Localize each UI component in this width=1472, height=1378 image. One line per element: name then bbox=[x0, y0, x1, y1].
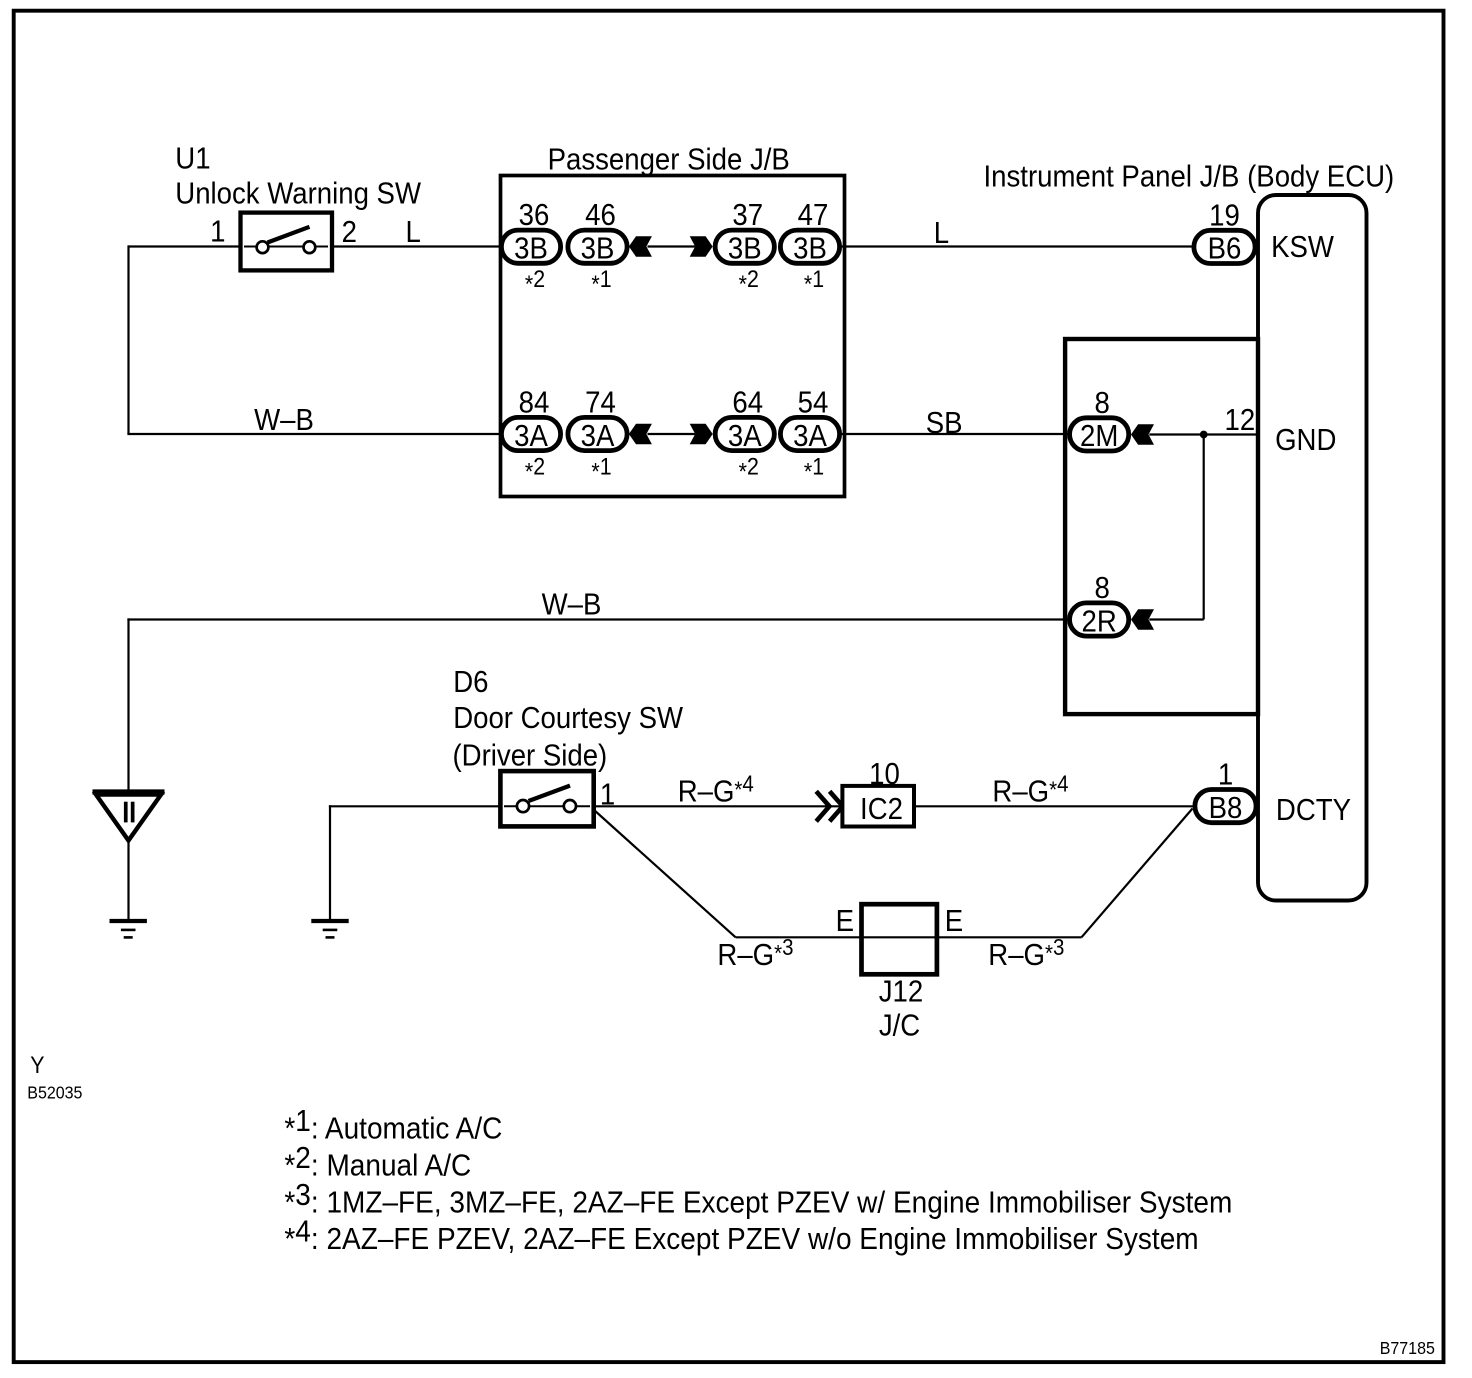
ground symbol 1 bbox=[110, 919, 147, 923]
switch D6 box bbox=[500, 771, 593, 826]
svg-text:R–G*4: R–G*4 bbox=[678, 770, 754, 809]
arrow at 2R bbox=[1131, 609, 1154, 629]
wire R-G from IC2 to B8 bbox=[913, 805, 1196, 807]
svg-text:1: 1 bbox=[1218, 757, 1233, 792]
connector 8 2R bbox=[1070, 603, 1129, 636]
connector 36 3B *2 bbox=[501, 230, 560, 263]
svg-text:3B: 3B bbox=[514, 231, 548, 266]
wire vertical drop from U1 pin 1 corner bbox=[127, 245, 129, 434]
wire from junction to 2R arrow bbox=[1149, 618, 1203, 620]
svg-text:47: 47 bbox=[798, 198, 829, 233]
connector 19 B6 bbox=[1194, 230, 1255, 263]
wire SB from J/B to 2M bbox=[839, 433, 1069, 435]
svg-text:Instrument Panel J/B (Body ECU: Instrument Panel J/B (Body ECU) bbox=[984, 159, 1395, 194]
connector 1 B8 bbox=[1195, 790, 1256, 823]
svg-text:D6: D6 bbox=[453, 665, 488, 700]
svg-text:B52035: B52035 bbox=[27, 1082, 82, 1102]
svg-text:DCTY: DCTY bbox=[1276, 793, 1351, 828]
svg-text:W–B: W–B bbox=[254, 403, 314, 438]
svg-text:74: 74 bbox=[585, 385, 616, 420]
svg-text:Y: Y bbox=[30, 1051, 44, 1078]
svg-text:64: 64 bbox=[732, 385, 763, 420]
svg-text:E: E bbox=[945, 904, 963, 939]
svg-text:*2: *2 bbox=[525, 452, 545, 484]
svg-text:B77185: B77185 bbox=[1380, 1338, 1435, 1358]
svg-text:W–B: W–B bbox=[542, 587, 602, 622]
junction dot bbox=[1200, 431, 1208, 439]
svg-text:3B: 3B bbox=[728, 231, 762, 266]
Passenger Side J/B box bbox=[501, 176, 845, 497]
connector 74 3A *1 bbox=[568, 417, 627, 450]
arrow right row 2 bbox=[690, 424, 713, 444]
svg-text:8: 8 bbox=[1094, 385, 1109, 420]
wire R-G*3 left segment bbox=[736, 936, 862, 938]
svg-text:*1: *1 bbox=[591, 265, 611, 297]
wire from ground 2 riser to D6 bbox=[329, 805, 504, 807]
switch D6 pin contact right bbox=[564, 800, 576, 812]
svg-text:*2: Manual A/C: *2: Manual A/C bbox=[284, 1141, 471, 1183]
svg-text:B6: B6 bbox=[1208, 231, 1242, 266]
wire diagonal up to B8 bbox=[1082, 809, 1193, 938]
wire vertical ground 2 to D6 wire bbox=[329, 805, 331, 921]
svg-text:36: 36 bbox=[519, 198, 550, 233]
svg-text:J/C: J/C bbox=[879, 1008, 920, 1043]
svg-text:B8: B8 bbox=[1209, 790, 1243, 825]
connector 46 3B *1 bbox=[568, 230, 627, 263]
svg-text:*1: *1 bbox=[804, 452, 824, 484]
svg-text:E: E bbox=[836, 904, 854, 939]
svg-text:U1: U1 bbox=[175, 141, 210, 176]
svg-text:L: L bbox=[934, 215, 949, 250]
svg-text:R–G*4: R–G*4 bbox=[992, 770, 1068, 809]
svg-text:2R: 2R bbox=[1082, 604, 1117, 639]
switch U1 box bbox=[241, 213, 333, 271]
J12 box bbox=[862, 904, 937, 974]
svg-text:R–G*3: R–G*3 bbox=[988, 934, 1064, 973]
switch D6 pin contact left bbox=[517, 800, 529, 812]
svg-text:SB: SB bbox=[926, 406, 963, 441]
wire from U1 pin 1 to left corner bbox=[129, 245, 243, 247]
svg-text:*1: Automatic A/C: *1: Automatic A/C bbox=[284, 1104, 502, 1146]
wire W-B long run to 2R bbox=[127, 618, 1069, 620]
connector 54 3A *1 bbox=[780, 417, 839, 450]
connector 64 3A *2 bbox=[715, 417, 774, 450]
IC2 box bbox=[842, 786, 914, 827]
svg-text:3A: 3A bbox=[728, 418, 762, 453]
svg-text:54: 54 bbox=[798, 385, 829, 420]
svg-text:J12: J12 bbox=[879, 974, 923, 1009]
svg-text:3B: 3B bbox=[581, 231, 615, 266]
svg-text:19: 19 bbox=[1209, 198, 1240, 233]
wire L from U1 pin 2 to J/B bbox=[330, 245, 504, 247]
svg-text:IC2: IC2 bbox=[860, 792, 903, 827]
wire R-G from D6 to IC2 chevrons bbox=[590, 805, 843, 807]
svg-text:*2: *2 bbox=[739, 452, 759, 484]
connector 84 3A *2 bbox=[501, 417, 560, 450]
svg-text:3A: 3A bbox=[581, 418, 615, 453]
svg-text:*2: *2 bbox=[525, 265, 545, 297]
svg-text:84: 84 bbox=[519, 385, 550, 420]
switch U1 lever bbox=[268, 227, 310, 243]
svg-text:Passenger Side J/B: Passenger Side J/B bbox=[548, 142, 790, 177]
triangle ground symbol II bbox=[93, 789, 165, 794]
svg-text:L: L bbox=[406, 215, 421, 250]
wire R-G*3 through J12 and right segment bbox=[862, 936, 1082, 938]
switch U1 pin 2 contact bbox=[304, 241, 316, 253]
arrow left row 1 bbox=[629, 236, 652, 256]
wire triangle apex to ground 1 bbox=[127, 841, 129, 921]
wire between arrows row 1 bbox=[648, 245, 696, 247]
ECU body outline bbox=[1258, 195, 1367, 901]
svg-text:2M: 2M bbox=[1080, 419, 1118, 454]
switch D6 lever bbox=[529, 786, 571, 801]
wire W-B to Passenger J/B 3A (node W-B) bbox=[127, 433, 502, 435]
svg-text:46: 46 bbox=[585, 198, 616, 233]
svg-text:3A: 3A bbox=[793, 418, 827, 453]
wire from 2M arrow to ECU edge (pin 12) bbox=[1149, 433, 1258, 435]
svg-text:*1: *1 bbox=[591, 452, 611, 484]
connector 37 3B *2 bbox=[715, 230, 774, 263]
svg-text:1: 1 bbox=[210, 214, 225, 249]
arrow left row 2 bbox=[629, 424, 652, 444]
svg-text:(Driver Side): (Driver Side) bbox=[453, 738, 608, 773]
svg-text:*4: 2AZ–FE PZEV, 2AZ–FE Except: *4: 2AZ–FE PZEV, 2AZ–FE Except PZEV w/o … bbox=[284, 1214, 1198, 1256]
svg-text:1: 1 bbox=[600, 777, 615, 812]
wire vertical from W-B corner to triangle ground bbox=[127, 618, 129, 791]
svg-text:3B: 3B bbox=[793, 231, 827, 266]
svg-text:Unlock Warning SW: Unlock Warning SW bbox=[175, 176, 421, 211]
svg-text:Door Courtesy SW: Door Courtesy SW bbox=[453, 701, 683, 736]
wire L from J/B to B6 bbox=[839, 245, 1194, 247]
svg-text:12: 12 bbox=[1225, 403, 1256, 438]
svg-text:R–G*3: R–G*3 bbox=[717, 934, 793, 973]
wire diagonal from D6 pin 1 down bbox=[594, 810, 736, 938]
svg-text:*3: 1MZ–FE, 3MZ–FE, 2AZ–FE Exc: *3: 1MZ–FE, 3MZ–FE, 2AZ–FE Except PZEV w… bbox=[284, 1178, 1232, 1220]
svg-text:2: 2 bbox=[342, 215, 357, 250]
svg-text:*1: *1 bbox=[804, 265, 824, 297]
ground symbol 2 bbox=[311, 919, 348, 923]
wire between arrows row 2 bbox=[648, 433, 696, 435]
switch U1 internal wire bbox=[244, 246, 328, 248]
2M/2R junction box bbox=[1065, 339, 1258, 714]
connector 47 3B *1 bbox=[780, 230, 839, 263]
svg-text:*2: *2 bbox=[739, 265, 759, 297]
svg-text:37: 37 bbox=[732, 198, 763, 233]
svg-text:8: 8 bbox=[1094, 571, 1109, 606]
wire vertical from junction to 2R level bbox=[1203, 435, 1205, 620]
svg-text:GND: GND bbox=[1275, 423, 1336, 458]
switch U1 pin 1 contact bbox=[257, 241, 269, 253]
connector 8 2M bbox=[1070, 418, 1129, 451]
arrow right row 1 bbox=[690, 236, 713, 256]
arrow at 2M bbox=[1131, 424, 1154, 444]
svg-text:KSW: KSW bbox=[1271, 230, 1334, 265]
switch D6 internal wire bbox=[504, 805, 590, 807]
double chevron into IC2 bbox=[816, 791, 829, 821]
svg-text:3A: 3A bbox=[514, 418, 548, 453]
